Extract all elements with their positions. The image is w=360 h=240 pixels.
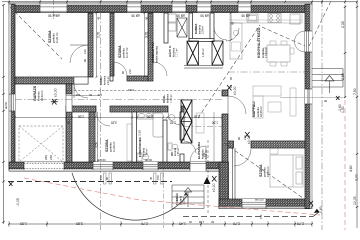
tv cabinet xyxy=(290,88,296,116)
corridor dimension line xyxy=(66,90,222,92)
fence post 1 xyxy=(104,173,107,184)
room label konyha-etkezo xyxy=(256,27,268,58)
elevation marker right steps xyxy=(336,96,340,100)
wall: wc east wall xyxy=(180,112,184,140)
terrace window opening in right wall (nappali) xyxy=(305,89,312,104)
kitchen sink xyxy=(247,14,258,22)
window W4 in top wall (konyha) xyxy=(238,4,251,12)
bottom dimension ticks xyxy=(8,223,313,225)
interior dimension chain horizontal xyxy=(15,117,222,119)
room label wing szoba xyxy=(259,164,270,177)
entrance solid triangle marker xyxy=(204,177,211,184)
axis line vertical B (dash-dot) xyxy=(321,0,323,230)
bottom dimension line main xyxy=(9,223,312,225)
gate swing arc arrowhead xyxy=(184,192,188,196)
bath toilet xyxy=(137,153,149,161)
terrace french door opening in right wall xyxy=(305,31,312,52)
openings layer xyxy=(9,4,312,208)
wall: garage east wall upper piece xyxy=(66,84,72,94)
corridor cabinet with X bracing xyxy=(181,100,192,143)
dining chairs xyxy=(270,41,276,45)
wall: szoba3 west wall xyxy=(89,112,95,162)
window W2 in top wall (szoba2) xyxy=(127,4,141,12)
elevation marker garage xyxy=(51,99,58,105)
wall: hoszivattyu room west wall xyxy=(148,13,153,81)
axis line horizontal C (dash-dot corridor) xyxy=(15,99,222,101)
fence post 3 xyxy=(154,173,157,184)
room label kozl 7 xyxy=(161,93,173,103)
wardrobe szoba3 xyxy=(127,124,132,161)
door arc: wing szoba door with leaf xyxy=(234,149,251,166)
wc washbasin xyxy=(168,115,175,121)
exterior steps right side xyxy=(312,69,343,88)
entrance door opening xyxy=(190,162,206,171)
door arc: kamra double door left xyxy=(214,27,227,40)
room label kamra xyxy=(194,24,204,34)
left dimension line xyxy=(3,5,5,224)
room label eloszoba xyxy=(196,141,208,159)
wall: kamra south wall xyxy=(189,39,214,42)
wall: szoba2 south wall east piece xyxy=(127,76,148,81)
top dimension ticks xyxy=(8,1,358,3)
axis line vertical at szoba1 window (dash-dot) xyxy=(53,0,55,20)
top dimension extension lines xyxy=(9,1,357,5)
vertical dimension chain szoba2 east xyxy=(144,13,146,77)
window W1 in top wall (szoba1) xyxy=(40,4,67,12)
wall: left exterior insulation strip xyxy=(9,4,11,170)
wall: interior szoba2 west wall xyxy=(110,13,114,76)
door arc: garage north door xyxy=(74,84,88,98)
room label szoba2 xyxy=(118,45,129,58)
wall: bottom exterior wall (garage + main body) xyxy=(9,162,221,169)
right dimension line outer xyxy=(356,2,358,228)
door arc: furdoszoba door xyxy=(168,112,181,125)
wall: right exterior wall xyxy=(305,4,312,208)
garage door dashed diagonal 2 xyxy=(19,126,63,162)
roof diagonal dashed nappali xyxy=(198,25,260,118)
right dimension line inner xyxy=(344,5,346,98)
exterior steps right arrow xyxy=(325,76,334,94)
room label garazs xyxy=(32,85,44,101)
fence post 2 xyxy=(109,173,112,184)
vertical dimension line eloszoba xyxy=(213,112,215,162)
wall: wing bottom insulation strip xyxy=(219,206,312,208)
vertical dimension chain szoba1/2 xyxy=(96,13,98,77)
garage north door opening xyxy=(74,77,88,84)
roof diagonal dashed wing xyxy=(224,143,303,198)
wall: hazt.k west wall xyxy=(164,13,168,43)
window W6 in bottom wall (szoba3) xyxy=(93,162,113,170)
wall: left exterior wall xyxy=(9,4,15,170)
garderobe eloszoba bench xyxy=(196,113,204,133)
wall: garage north wall xyxy=(15,77,88,84)
washing machine hazt k xyxy=(168,14,176,22)
room label hazt k xyxy=(167,45,179,57)
kitchen fridge xyxy=(290,14,300,24)
door arc: terrace french door leaf 1 xyxy=(295,31,306,42)
dashed vertical line at bath axis xyxy=(163,162,165,228)
right dimension ticks inner xyxy=(344,6,346,98)
door arc: szoba3 door xyxy=(96,112,110,126)
vertical dimension chain kamra xyxy=(230,13,232,40)
kitchen west counter xyxy=(230,23,242,59)
window W3 in top wall (hazt.k) xyxy=(172,4,186,12)
roof valley dashed kitchen xyxy=(262,27,305,46)
door arc: nappali door xyxy=(228,96,246,114)
wall line below shafts xyxy=(184,66,223,69)
wall: kamra west wall xyxy=(189,13,193,42)
room label nappali xyxy=(252,101,263,117)
wall: wc east wall lower stub xyxy=(180,154,184,162)
red dashed property line bottom xyxy=(24,178,320,215)
hoszivattyu indoor unit xyxy=(177,18,187,37)
left dimension ticks xyxy=(2,4,4,223)
double washbasin xyxy=(137,112,153,119)
wall: kamra east wall xyxy=(210,13,214,42)
roof diagonal dashed kitchen corner xyxy=(309,1,331,46)
door dimension row corridor xyxy=(66,95,100,97)
room label furdoszoba xyxy=(137,137,149,157)
wall: nappali / wing szoba wall west stub xyxy=(228,141,234,148)
walls layer xyxy=(9,3,313,209)
elevation marker left terrace xyxy=(9,182,13,186)
dining table xyxy=(267,45,290,62)
door arc: kamra double door right xyxy=(226,28,239,41)
elevation marker bottom right corner xyxy=(309,201,313,208)
garage door dashed projection square xyxy=(19,126,63,162)
garage east door opening xyxy=(66,94,72,112)
wall: szoba3 / furdoszoba separating wall xyxy=(132,112,137,162)
porch steps arrow xyxy=(185,188,192,208)
wall: wing west interior wall (thin double line) xyxy=(233,148,235,199)
shaft box 1 with X bracing xyxy=(187,41,199,65)
fence post 4 xyxy=(161,173,164,184)
bed in wing szoba xyxy=(270,155,303,187)
window W7 in bottom wall (furdoszoba) xyxy=(143,162,158,170)
wall: furdoszoba / wc separating wall xyxy=(163,120,167,162)
roof diagonal dashed szoba1 xyxy=(10,7,62,59)
wall: wing west exterior wall xyxy=(219,162,229,209)
room label hoszivattyu xyxy=(150,42,159,63)
terrace dashed line bottom left xyxy=(8,181,172,183)
right dimension ticks outer xyxy=(356,6,358,208)
arrow at end of dashed line xyxy=(313,209,319,216)
vertical dimension chain szoba3 xyxy=(97,112,99,162)
wall: nappali / wing szoba wall xyxy=(251,141,305,148)
room label tornac xyxy=(174,193,186,205)
door arc: terrace french door leaf 2 xyxy=(295,42,306,53)
wall: bottom exterior insulation strip xyxy=(9,169,221,171)
gate swing arc xyxy=(72,173,188,220)
black dashed line bottom right xyxy=(183,216,313,218)
wall: interior szoba1 east wall xyxy=(88,13,93,77)
window W5 in left wall (garage) xyxy=(9,94,15,111)
window W4b in top wall (kamra) xyxy=(197,4,211,12)
wall: corridor south wall middle piece xyxy=(110,106,168,112)
room label wc xyxy=(170,147,180,156)
wall: corridor south wall east stub xyxy=(181,106,184,112)
door arc: entrance door xyxy=(190,146,206,162)
wall: szoba2 south wall west stub xyxy=(110,76,113,81)
elevation marker konyha xyxy=(227,85,232,91)
door arc: szoba1 door xyxy=(70,45,88,63)
bathtub xyxy=(153,113,163,137)
bottom dimension extension lines xyxy=(9,221,312,227)
top dimension line xyxy=(2,1,357,3)
wall: right exterior insulation strip xyxy=(310,4,312,208)
wall: garage east wall lower piece xyxy=(66,112,72,162)
kitchen stove xyxy=(268,14,281,23)
wall: wing bottom exterior wall xyxy=(219,199,312,206)
room label szoba1 xyxy=(48,30,59,43)
axis line horizontal D (dash-dot nappali) xyxy=(228,71,305,73)
sofa group xyxy=(253,86,281,96)
room label kozl 2 xyxy=(98,75,110,85)
nightstand wing xyxy=(270,148,278,154)
axis line horizontal eloszoba (dash-dot) xyxy=(184,126,228,128)
wall: top exterior wall xyxy=(9,4,312,12)
elevation marker nappali xyxy=(245,132,250,138)
wc toilet xyxy=(168,143,178,150)
terrace slab edge line right xyxy=(280,97,343,99)
garage door dashed diagonal 1 xyxy=(19,126,63,162)
room label szoba3 xyxy=(105,139,116,152)
shaft box 2 with X bracing xyxy=(212,41,223,65)
wall: eloszoba / nappali wall lower part xyxy=(222,114,228,162)
porch steps xyxy=(172,185,204,209)
window W8 in wing bottom wall xyxy=(242,199,266,209)
dashed vertical line at porch xyxy=(207,140,209,214)
door arc: szoba2 door xyxy=(113,62,127,76)
wall: top exterior insulation strip xyxy=(9,3,312,5)
door arc: wc door xyxy=(184,141,196,153)
wall: eloszoba / nappali wall xyxy=(222,90,228,96)
elevation marker porch xyxy=(212,176,217,182)
wall: corridor south wall (bath + szoba3 north) xyxy=(66,106,96,112)
door arc: hoszivattyu room door xyxy=(153,62,167,76)
interior dimension chain ticks xyxy=(14,116,223,118)
garage vehicle door opening in bottom wall xyxy=(24,162,64,170)
kitchen counter xyxy=(230,13,302,24)
axis line vertical A (dash-dot) xyxy=(100,0,102,230)
red dashed property line right xyxy=(344,100,346,230)
furniture layer xyxy=(127,13,303,188)
